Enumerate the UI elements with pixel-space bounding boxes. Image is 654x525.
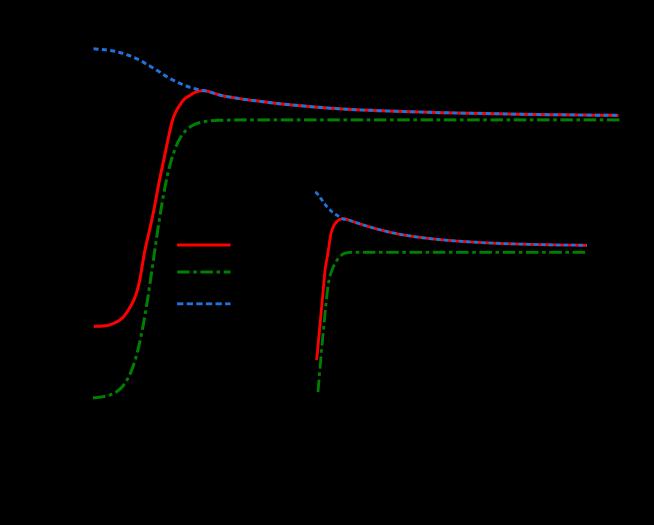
legend blue dashed line sample bbox=[177, 302, 230, 305]
legend red solid line sample bbox=[177, 243, 230, 246]
inset plot green dash-dot curve bbox=[318, 252, 588, 392]
inset plot blue dashed curve bbox=[315, 192, 587, 245]
main plot red solid curve bbox=[94, 91, 619, 327]
main plot green dash-dot curve bbox=[93, 120, 620, 398]
inset plot red solid curve bbox=[317, 219, 587, 360]
main plot blue dashed curve bbox=[94, 49, 621, 116]
legend green dash-dot line sample bbox=[177, 270, 230, 273]
